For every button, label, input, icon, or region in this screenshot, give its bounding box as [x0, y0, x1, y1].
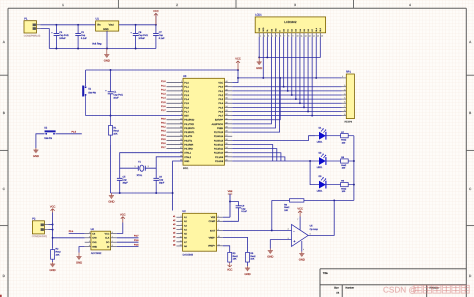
svg-text:U1: U1 [96, 18, 99, 21]
svg-text:P2.1/A9: P2.1/A9 [215, 156, 223, 159]
svg-text:Res2: Res2 [341, 164, 346, 167]
wire S2 to ground [36, 134, 45, 148]
op-amp-na microcontroller U3 8051 body [180, 75, 227, 170]
svg-text:IOUT: IOUT [210, 229, 215, 232]
svg-text:a5: a5 [173, 231, 175, 234]
wire XTAL2 [145, 157, 183, 168]
svg-text:2: 2 [148, 165, 149, 167]
svg-text:a1: a1 [173, 215, 175, 218]
svg-text:P1.2: P1.2 [184, 90, 189, 93]
svg-text:RP1: RP1 [346, 71, 351, 74]
corner red mark [0, 295, 2, 297]
svg-text:a2: a2 [173, 219, 175, 222]
svg-text:VCC: VCC [153, 10, 159, 13]
wire op-amp output [308, 200, 334, 235]
svg-text:GND: GND [103, 28, 109, 31]
svg-text:12: 12 [180, 244, 182, 246]
svg-text:Size: Size [334, 287, 339, 290]
wire ADC VCC pin [117, 223, 123, 234]
svg-text:P3.4: P3.4 [161, 134, 166, 137]
svg-text:R1: R1 [113, 127, 116, 130]
svg-text:P3.2: P3.2 [161, 126, 166, 129]
svg-text:EA/VPP: EA/VPP [215, 119, 223, 122]
svg-text:RESP8: RESP8 [345, 120, 353, 123]
svg-text:LCD1: LCD1 [255, 14, 262, 17]
resistor R8 100 [341, 156, 354, 169]
svg-text:VCC: VCC [235, 58, 241, 61]
svg-text:P2: P2 [32, 218, 35, 221]
svg-text:P3.5: P3.5 [134, 243, 139, 246]
LED D1 [315, 126, 341, 143]
svg-text:GND: GND [267, 255, 273, 258]
svg-text:Cap: Cap [159, 179, 163, 182]
svg-text:P3.5/T1: P3.5/T1 [184, 139, 192, 142]
wire S2 to net label P1.5 [56, 131, 82, 134]
svg-text:D0: D0 [283, 29, 285, 31]
wire EA to VCC rail [232, 78, 280, 120]
svg-text:LED1: LED1 [317, 166, 323, 169]
wire inverting input [272, 229, 292, 232]
svg-text:C1: C1 [113, 91, 116, 94]
LED D2 [315, 152, 341, 169]
ground symbol under S2 [33, 148, 39, 158]
svg-text:A4: A4 [336, 292, 339, 295]
MCU right pin stubs [224, 83, 232, 161]
svg-text:P3.2/INT0: P3.2/INT0 [184, 127, 194, 130]
wire LCD RS to MCU [232, 37, 271, 124]
capacitor C7 0.1uF [153, 25, 165, 49]
svg-text:P1.1: P1.1 [161, 84, 166, 87]
svg-text:GND: GND [184, 160, 189, 163]
svg-text:CLK: CLK [105, 237, 109, 240]
svg-text:9: 9 [344, 113, 345, 115]
svg-text:P3.7: P3.7 [161, 146, 166, 149]
svg-text:7: 7 [181, 223, 182, 225]
wire ADC DI with net label [117, 243, 139, 246]
svg-text:2: 2 [176, 3, 178, 7]
junction C3 top [77, 24, 79, 26]
svg-text:SW-PB: SW-PB [88, 91, 96, 94]
wire XTAL1 [120, 153, 183, 169]
watermark CSDN [383, 285, 469, 294]
svg-text:S1: S1 [88, 87, 91, 90]
wire mesh P2.2 tap [232, 153, 281, 161]
svg-text:GND: GND [108, 200, 114, 203]
svg-text:Res2: Res2 [113, 130, 118, 133]
svg-text:D: D [3, 274, 5, 278]
svg-text:P2.2/A10: P2.2/A10 [214, 152, 223, 155]
svg-text:+: + [130, 31, 132, 34]
svg-text:10: 10 [296, 35, 298, 37]
svg-text:1: 1 [135, 165, 136, 167]
power port VCC at regulator output [153, 10, 159, 25]
svg-text:C: C [3, 187, 5, 191]
resistor R7 100 [341, 131, 354, 144]
ground symbol under regulator [104, 49, 110, 63]
svg-text:16: 16 [321, 35, 323, 37]
wire MCU P2.0 to LED D2 [232, 159, 315, 162]
svg-text:Cap: Cap [81, 34, 85, 37]
svg-text:P1.6: P1.6 [184, 106, 189, 109]
svg-text:4: 4 [409, 3, 411, 7]
svg-text:5: 5 [112, 244, 113, 246]
wire LED common bus to op-amp output [333, 136, 355, 202]
svg-text:C: C [469, 187, 471, 191]
svg-text:8: 8 [344, 109, 345, 111]
svg-text:20: 20 [180, 159, 182, 161]
svg-text:+: + [105, 90, 107, 93]
capacitor C1 10uF [105, 70, 123, 117]
svg-text:30pF: 30pF [159, 181, 164, 184]
svg-text:D4: D4 [299, 29, 301, 31]
svg-text:6: 6 [310, 233, 311, 235]
svg-text:D2: D2 [319, 152, 322, 155]
svg-text:5: 5 [276, 35, 277, 37]
svg-text:P3.5: P3.5 [161, 138, 166, 141]
svg-text:CON2(AUDIO): CON2(AUDIO) [32, 235, 47, 238]
svg-text:6: 6 [344, 101, 345, 103]
svg-text:-: - [293, 229, 294, 233]
LED D3 [315, 175, 341, 192]
svg-text:P0.3: P0.3 [218, 98, 223, 101]
wire LCD E to MCU [232, 37, 279, 132]
title block [320, 269, 466, 297]
wire mesh P2.1 tap [232, 157, 285, 161]
ground symbol at op-amp + input [267, 249, 273, 259]
svg-text:a6: a6 [173, 235, 175, 238]
svg-text:DI: DI [107, 246, 109, 249]
svg-text:R7: R7 [341, 131, 344, 134]
svg-text:P3.6/WR: P3.6/WR [184, 143, 193, 146]
wire P1 pin1 to regulator Vin [40, 23, 95, 26]
svg-text:GND: GND [244, 273, 250, 276]
svg-text:P3.0: P3.0 [161, 117, 166, 120]
svg-text:R6: R6 [284, 203, 287, 206]
svg-text:P1.3: P1.3 [184, 94, 189, 97]
svg-text:VL: VL [267, 29, 269, 31]
ground symbol for LCD [256, 57, 262, 69]
svg-text:P0.6: P0.6 [218, 110, 223, 113]
svg-text:GND: GND [50, 269, 56, 272]
svg-text:CH0: CH0 [92, 237, 96, 240]
svg-text:GND: GND [299, 258, 305, 261]
svg-text:C5: C5 [123, 176, 126, 179]
display LCD1 LCD1602 [255, 14, 325, 37]
svg-text:A2: A2 [184, 220, 187, 223]
ground symbol under ADC [76, 253, 82, 265]
svg-text:VDD: VDD [262, 27, 264, 31]
resistor R1 10K [109, 116, 119, 193]
crystal Y1 [135, 160, 149, 176]
svg-text:P0.5: P0.5 [218, 106, 223, 109]
svg-text:R5: R5 [250, 252, 253, 255]
svg-text:VEE: VEE [228, 190, 233, 193]
svg-text:VREF+: VREF+ [208, 245, 215, 248]
connector P1 [24, 18, 41, 37]
svg-text:100uF: 100uF [59, 37, 66, 40]
svg-text:4: 4 [303, 248, 304, 250]
svg-text:A: A [3, 40, 5, 44]
wire IOUT to op-amp [223, 229, 272, 232]
svg-text:7: 7 [297, 218, 298, 220]
svg-text:12: 12 [305, 35, 307, 37]
svg-text:P0.4: P0.4 [218, 102, 223, 105]
svg-text:D7: D7 [311, 29, 313, 31]
svg-text:D5: D5 [303, 29, 305, 31]
svg-text:Cap: Cap [241, 207, 245, 210]
svg-text:P3.0/RXD: P3.0/RXD [184, 119, 194, 122]
svg-text:4: 4 [272, 35, 273, 37]
power port VCC above op-amp [297, 207, 303, 216]
wire op-amp V- to ground [300, 241, 303, 252]
svg-text:6: 6 [280, 35, 281, 37]
svg-text:P2.5/A13: P2.5/A13 [214, 139, 223, 142]
svg-text:P1: P1 [24, 18, 27, 21]
svg-text:LED1: LED1 [317, 141, 323, 144]
wire ADC DO with net label [117, 239, 139, 242]
svg-text:Cap: Cap [123, 179, 127, 182]
svg-text:P1.1: P1.1 [184, 86, 189, 89]
svg-text:P1.0: P1.0 [161, 80, 166, 83]
svg-text:A6: A6 [184, 237, 187, 240]
svg-text:P0.0: P0.0 [218, 86, 223, 89]
svg-text:C6: C6 [159, 176, 162, 179]
svg-text:P3.1/TXD: P3.1/TXD [184, 123, 194, 126]
wire mesh P2.4 tap [232, 144, 273, 161]
wire LCD backlight ground line [259, 37, 320, 58]
svg-text:+: + [293, 239, 295, 243]
svg-text:0.1uF: 0.1uF [159, 37, 165, 40]
svg-text:U4: U4 [91, 228, 94, 231]
svg-text:CH1: CH1 [92, 241, 96, 244]
wire S1 branch [84, 70, 87, 86]
switch S2 SW-PB [44, 126, 55, 139]
svg-text:100uF: 100uF [138, 37, 145, 40]
svg-text:P1.5: P1.5 [72, 131, 77, 134]
svg-text:100: 100 [342, 190, 346, 193]
svg-text:11: 11 [180, 240, 182, 242]
svg-text:U2: U2 [182, 210, 185, 213]
wire MCU P2.5 to LED D1 [232, 136, 315, 141]
svg-text:A7: A7 [184, 241, 187, 244]
svg-text:Cap: Cap [159, 34, 163, 37]
svg-text:DO: DO [106, 241, 109, 244]
svg-text:P3.7/RD: P3.7/RD [184, 148, 193, 151]
svg-text:Res2: Res2 [341, 188, 346, 191]
svg-text:PSEN: PSEN [217, 127, 223, 130]
svg-text:a7: a7 [173, 240, 175, 243]
svg-text:BLK: BLK [319, 28, 321, 32]
wire mesh P2.3 tap [232, 149, 277, 161]
wire LCD BLA to VCC rail [315, 37, 318, 78]
svg-text:A3: A3 [184, 224, 187, 227]
svg-text:5: 5 [344, 97, 345, 99]
svg-text:Res2: Res2 [341, 139, 346, 142]
svg-text:B: B [469, 111, 471, 115]
capacitor C6 30pF [153, 168, 164, 194]
svg-text:U5: U5 [310, 225, 313, 228]
svg-text:P2.0/A8: P2.0/A8 [215, 160, 223, 163]
svg-text:P3.6: P3.6 [134, 239, 139, 242]
svg-text:2: 2 [264, 35, 265, 37]
svg-text:RS: RS [271, 29, 273, 32]
svg-text:P3.6: P3.6 [161, 142, 166, 145]
junction C4 top [55, 24, 57, 26]
svg-text:8: 8 [288, 35, 289, 37]
wire ADC CLK with net label [117, 235, 139, 238]
svg-text:0.1uF: 0.1uF [81, 37, 87, 40]
svg-text:P3.1: P3.1 [161, 121, 166, 124]
svg-text:7: 7 [344, 105, 345, 107]
op-amp U5 [288, 218, 318, 250]
svg-text:19: 19 [180, 151, 182, 153]
svg-text:15: 15 [218, 235, 220, 237]
svg-text:P1.6: P1.6 [161, 105, 166, 108]
svg-text:GND: GND [256, 67, 262, 70]
svg-text:GND: GND [104, 59, 110, 62]
wire LCD VDD to VCC rail [262, 37, 265, 78]
svg-text:D3: D3 [319, 175, 322, 178]
svg-text:P2.4/A12: P2.4/A12 [214, 143, 223, 146]
svg-text:13: 13 [309, 35, 311, 37]
svg-text:1: 1 [62, 3, 64, 7]
svg-text:D1: D1 [287, 29, 289, 31]
svg-text:1: 1 [342, 75, 343, 77]
wire ADC GND pin [79, 247, 85, 253]
wire VCC rail to reset circuit and MCU [86, 69, 239, 71]
svg-text:14: 14 [313, 35, 315, 37]
svg-text:5: 5 [181, 215, 182, 217]
svg-text:P3.4/T0: P3.4/T0 [184, 135, 192, 138]
svg-text:18: 18 [180, 155, 182, 157]
svg-text:CON2(PWR2.5): CON2(PWR2.5) [24, 34, 40, 37]
svg-text:VSS: VSS [258, 28, 260, 32]
wire ground rail of power section [49, 47, 156, 50]
svg-text:GND: GND [33, 155, 39, 158]
wire P2 pins to divider [49, 224, 54, 231]
svg-text:6: 6 [181, 219, 182, 221]
svg-text:Op Amp: Op Amp [310, 228, 318, 231]
svg-text:0.1uF: 0.1uF [241, 210, 247, 213]
wires P3.0-P3.7 net label stubs [161, 117, 183, 148]
power port VCC under R3 [227, 263, 233, 272]
capacitor C9 0.1uF COMP [223, 202, 247, 222]
svg-text:P3.7: P3.7 [134, 235, 139, 238]
resistor pack RP1 [342, 71, 355, 123]
wire CH0 line [53, 236, 85, 239]
svg-text:16: 16 [218, 219, 220, 221]
svg-text:8: 8 [181, 227, 182, 229]
svg-text:Cap Pol1: Cap Pol1 [113, 94, 122, 97]
svg-text:DAC0808: DAC0808 [183, 253, 193, 256]
wire junction to LED D3 [309, 160, 315, 185]
DAC U2 DAC0808 [173, 210, 223, 256]
svg-text:Cap Pol1: Cap Pol1 [138, 34, 147, 37]
svg-text:3: 3 [268, 35, 269, 37]
svg-text:a3: a3 [173, 223, 175, 226]
ADC U4 ADC0832 [85, 228, 117, 255]
svg-text:8: 8 [112, 231, 113, 233]
svg-text:VCC: VCC [120, 213, 126, 216]
wire feedback node vertical [271, 200, 273, 231]
svg-text:Res2: Res2 [233, 255, 238, 258]
svg-text:Volt Reg: Volt Reg [92, 43, 101, 46]
svg-text:9: 9 [292, 35, 293, 37]
svg-text:10K: 10K [284, 209, 288, 212]
svg-text:C9: C9 [241, 204, 244, 207]
svg-text:P1.5: P1.5 [161, 101, 166, 104]
svg-text:P3.4: P3.4 [69, 230, 74, 233]
svg-text:2: 2 [89, 236, 90, 238]
svg-text:XTAL: XTAL [137, 174, 143, 177]
wire sensor divider vertical [52, 213, 54, 249]
svg-text:P1.4: P1.4 [161, 97, 166, 100]
svg-text:a8: a8 [173, 244, 175, 247]
svg-text:14: 14 [218, 244, 220, 246]
svg-text:D: D [469, 274, 471, 278]
svg-text:Res2: Res2 [56, 251, 61, 254]
wire LCD RW to MCU [232, 37, 275, 128]
svg-text:3: 3 [344, 89, 345, 91]
svg-text:4: 4 [89, 244, 90, 246]
svg-text:Y1: Y1 [138, 160, 141, 163]
resistor R6 10K feedback [272, 199, 334, 212]
svg-text:P1.2: P1.2 [161, 88, 166, 91]
svg-text:Res2: Res2 [250, 255, 255, 258]
svg-text:COMP: COMP [209, 220, 216, 223]
svg-text:R3: R3 [233, 252, 236, 255]
svg-text:P0.2: P0.2 [218, 94, 223, 97]
wire crystal ground rail [111, 191, 173, 194]
svg-text:15: 15 [317, 35, 319, 37]
svg-text:Cap Pol1: Cap Pol1 [59, 34, 68, 37]
svg-text:P1.7: P1.7 [161, 109, 166, 112]
svg-text:P0.1: P0.1 [218, 90, 223, 93]
wire CS line with net label [69, 230, 85, 233]
wire RST line [86, 114, 183, 117]
svg-text:A8: A8 [184, 245, 187, 248]
svg-text:P1.7: P1.7 [184, 110, 189, 113]
svg-text:SW-PB: SW-PB [44, 137, 52, 140]
svg-text:7: 7 [112, 236, 113, 238]
svg-text:VREF-: VREF- [209, 236, 216, 239]
svg-text:2: 2 [344, 84, 345, 86]
svg-text:LED1: LED1 [317, 189, 323, 192]
svg-text:P1.3: P1.3 [161, 93, 166, 96]
svg-text:ADC0832: ADC0832 [91, 252, 101, 255]
wire LCD VSS to ground line [258, 37, 260, 58]
svg-text:D6: D6 [307, 29, 309, 31]
wires P0.0-P0.7 bus to RP1 [232, 87, 341, 116]
svg-text:RW: RW [275, 28, 277, 31]
svg-text:10K: 10K [113, 132, 117, 135]
svg-text:R2: R2 [56, 248, 59, 251]
svg-text:100: 100 [342, 141, 346, 144]
junction C8 top [135, 24, 137, 26]
svg-text:3: 3 [218, 215, 219, 217]
svg-text:A4: A4 [184, 228, 187, 231]
svg-text:C8: C8 [138, 31, 141, 34]
svg-text:Vin: Vin [97, 24, 101, 27]
svg-text:A1: A1 [184, 216, 187, 219]
svg-text:3: 3 [294, 3, 296, 7]
svg-text:XTAL2: XTAL2 [184, 156, 191, 159]
svg-text:1: 1 [89, 231, 90, 233]
connector P2 [32, 218, 49, 238]
svg-text:30pF: 30pF [123, 181, 128, 184]
svg-text:A5: A5 [184, 233, 187, 236]
svg-text:Number: Number [346, 287, 355, 290]
